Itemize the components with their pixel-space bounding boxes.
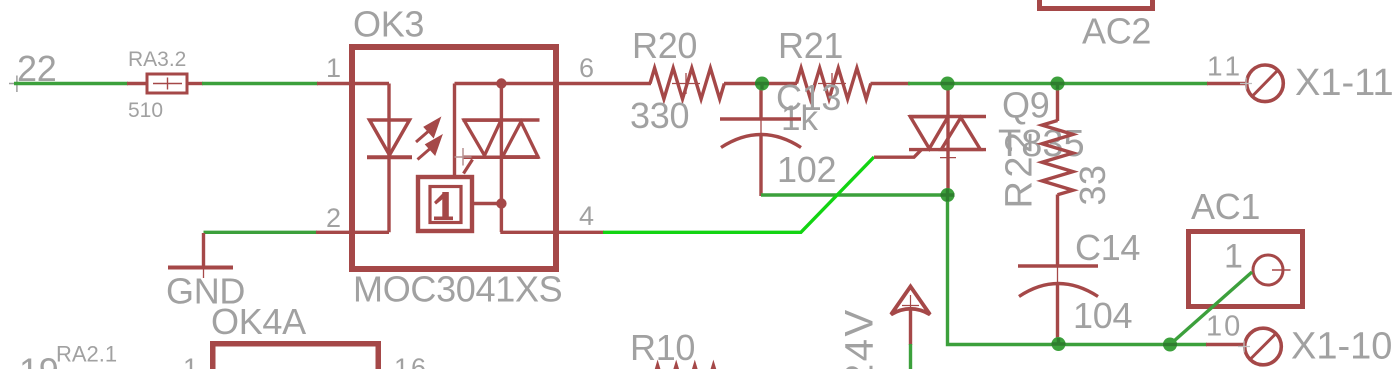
capacitor C13 [720,84,801,197]
wire bright green pin4 to gate [603,157,874,232]
connector AC2 box [1040,0,1153,9]
connector OK4A box [213,344,379,369]
svg-text:R20: R20 [632,25,697,66]
junction node at Q9 bottom [941,188,955,202]
junction node at R22 top [1051,77,1065,91]
wire GND to OK3 pin 2 [204,231,318,234]
svg-text:19: 19 [19,351,58,369]
pin 2 lead [316,231,352,234]
svg-text:RA2.1: RA2.1 [56,342,117,367]
svg-text:C14: C14 [1075,227,1140,268]
transistor Q9 triac [909,84,986,196]
svg-text:6: 6 [579,53,594,83]
wire AC1 diagonal to bottom net [1170,272,1252,345]
svg-text:OK3: OK3 [353,4,424,45]
node 22 off-sheet cross [9,76,26,93]
OK3 internal triac [455,84,557,233]
svg-text:C13: C13 [776,77,841,118]
OK3 internal wire to pin4 [472,204,556,233]
connector AC1 box [1189,232,1303,307]
svg-text:102: 102 [777,149,836,190]
svg-text:1: 1 [326,53,341,83]
svg-text:104: 104 [1073,295,1132,336]
wire net from 22 to RA3.2 [14,82,128,85]
wire pin 4 net (highlighted) [556,231,604,234]
svg-text:11: 11 [1207,51,1244,82]
junction node R20/R21/C13 [755,77,769,91]
OK3 triac origin cross [455,148,472,166]
svg-text:16: 16 [394,353,428,369]
X1-11 origin cross [1240,78,1252,90]
terminal X1-10 [1206,328,1281,365]
svg-text:330: 330 [630,95,689,136]
svg-text:R21: R21 [778,25,843,66]
wire Q9 bottom down and across [948,195,1208,345]
svg-text:X1-11: X1-11 [1295,62,1392,104]
svg-text:X1-10: X1-10 [1291,326,1392,368]
junction node AC1/X1-10 [1163,338,1177,352]
OK3 junction bottom [496,198,506,208]
svg-text:24V: 24V [838,307,882,369]
svg-text:10: 10 [1206,311,1242,343]
resistor R10 partial [653,366,727,369]
resistor R21 [762,68,910,99]
svg-text:R22: R22 [999,129,1041,209]
X1-10 origin cross [1238,341,1250,353]
OK3 junction top [496,78,506,88]
capacitor C14 [1018,266,1098,344]
svg-text:MOC3041XS: MOC3041XS [353,269,562,310]
svg-text:AC2: AC2 [1082,11,1151,52]
pin 6 lead and wire to R20 [556,82,651,85]
resistor RA3.2 [127,74,203,93]
resistor R20 [650,68,762,99]
svg-text:R10: R10 [630,327,695,368]
AC1 pin 1 [1253,255,1291,285]
OK3 zero-cross box with 1 [418,177,472,231]
terminal X1-11 [1207,65,1283,102]
svg-text:510: 510 [128,99,163,122]
svg-text:Q9: Q9 [1002,85,1049,126]
svg-text:RA3.2: RA3.2 [128,48,186,71]
wire C13 to triac junction [761,193,948,196]
supply 24V arrow [891,287,930,346]
resistor R22 vertical [1042,84,1073,268]
wire 24V net down [909,344,912,369]
svg-text:1: 1 [1224,238,1243,276]
junction node at Q9 top [941,77,955,91]
junction node C14 bottom [1052,337,1066,351]
digit 1 inside box [434,192,453,220]
wire RA3.2 to OK3 pin 1 [202,82,318,85]
svg-text:AC1: AC1 [1191,186,1260,227]
ground [168,233,233,278]
wire R21 to X1-11 [908,82,1208,85]
pin 1 lead [317,82,352,85]
svg-text:4: 4 [579,201,594,231]
svg-text:1: 1 [183,353,198,369]
OK3 light arrows [416,118,442,160]
wire gate red segment [874,150,922,158]
svg-text:33: 33 [1072,164,1113,205]
op-amp U1 OK3 optocoupler box [352,47,556,269]
svg-text:OK4A: OK4A [211,301,306,342]
svg-text:2: 2 [326,203,341,233]
OK3 internal LED D1 [352,84,412,233]
